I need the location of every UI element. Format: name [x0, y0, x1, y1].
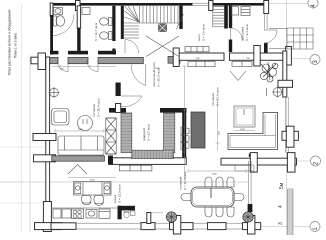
plant NE: [260, 62, 277, 82]
buffet bar: [191, 112, 205, 148]
bathroom floor wall: [50, 51, 58, 55]
plants bottom: [166, 212, 176, 222]
landing diagonal: [177, 14, 184, 29]
svg-text:S = 25,4 кв.м: S = 25,4 кв.м: [97, 99, 101, 117]
bottom cross x148: [141, 223, 155, 230]
column circle: [49, 87, 60, 98]
main wall right outline sections: [179, 53, 224, 60]
round table: [78, 116, 93, 131]
closet top walls: [109, 108, 126, 113]
east wall window: [265, 14, 268, 30]
kitchen north wall: [52, 156, 105, 161]
hall wall above closet: [116, 83, 121, 97]
log cross main x41: [38, 53, 46, 70]
log end top x210: [209, 1, 213, 11]
flight2 right wall: [224, 5, 228, 29]
svg-text:S = 22,4 кв.м: S = 22,4 кв.м: [183, 172, 187, 190]
side table circle: [267, 87, 284, 98]
svg-text:прихожая: прихожая: [241, 27, 245, 41]
right glazing: [286, 97, 289, 153]
log end top x77: [76, 1, 81, 11]
axis circles: [308, 0, 321, 232]
vestibule cabinet: [241, 7, 250, 16]
armchair: [52, 109, 70, 126]
svg-text:S = 57,3 кв.м: S = 57,3 кв.м: [216, 88, 220, 106]
bottom cross x251: [243, 223, 261, 230]
wc toilet 1: [100, 18, 112, 26]
log arm left junction: [31, 57, 38, 64]
bottom mid segment: [208, 223, 227, 230]
closet shelf strips: [121, 113, 175, 159]
kitchen stools: [82, 196, 104, 206]
shower room left wall: [50, 3, 53, 16]
kitchen wc walls: [118, 206, 136, 211]
top outer wall: [50, 3, 193, 6]
corner cross SW: [43, 202, 51, 232]
left run treads: [124, 26, 139, 38]
svg-text:S = 7,6 кв.м: S = 7,6 кв.м: [202, 24, 206, 41]
doors: [53, 15, 277, 107]
svg-text:1200: 1200: [240, 129, 246, 131]
east wall below door: [264, 43, 268, 53]
tiny dim labels: [60, 58, 250, 181]
svg-text:S = 6,4 кв.м: S = 6,4 кв.м: [245, 24, 249, 41]
main stair treads: [124, 6, 180, 23]
stair left wall: [121, 6, 124, 39]
hall bench: [185, 47, 209, 52]
svg-text:5м: 5м: [279, 182, 285, 189]
log cross main x288: [286, 47, 292, 66]
svg-text:План 1-го этажа: План 1-го этажа: [14, 33, 18, 58]
room labels: [92, 23, 249, 203]
log bar left y158: [34, 155, 56, 162]
sofa: [58, 136, 104, 155]
kitchen island: [74, 182, 112, 196]
dining table: [191, 187, 234, 207]
sink shower room: [54, 8, 63, 15]
kitchen upper cabinets: [119, 165, 152, 171]
log end NE corner: [264, 1, 269, 14]
right outer wall upper: [283, 51, 287, 97]
log cross main x257: [254, 46, 260, 67]
svg-text:3100: 3100: [90, 180, 96, 182]
dim line living: [55, 129, 104, 133]
svg-text:3: 3: [278, 222, 284, 225]
svg-text:столовая: столовая: [179, 177, 183, 190]
svg-text:4: 4: [278, 205, 284, 208]
square table living: [234, 106, 255, 127]
hall X mark: [146, 36, 179, 57]
log cross right y136: [282, 131, 298, 140]
svg-text:кухня: кухня: [113, 195, 117, 203]
svg-text:холл: холл: [197, 34, 201, 41]
toilet shower room: [54, 16, 65, 27]
svg-text:S = 11,7 кв.м: S = 11,7 кв.м: [94, 23, 98, 41]
corner sofa: [228, 113, 278, 150]
wardrobe: [106, 118, 116, 154]
partition shower/wc: [77, 6, 80, 28]
svg-text:S = 20,3 кв.м: S = 20,3 кв.м: [157, 69, 161, 87]
svg-text:2500: 2500: [78, 129, 84, 131]
wc cabinet: [82, 8, 90, 15]
kitchen counters: [52, 208, 117, 219]
closet right wall: [182, 108, 186, 164]
svg-text:S = 6,2 кв.м: S = 6,2 кв.м: [147, 124, 151, 141]
svg-text:гардероб: гардероб: [142, 128, 146, 141]
cabinet below wall 1: [188, 62, 215, 67]
bottom wall band: [51, 223, 76, 230]
log bar left y137: [33, 134, 56, 141]
top wall window: [192, 3, 211, 5]
log cross main x176: [173, 48, 179, 67]
living V mark: [230, 71, 246, 81]
scale ruler: [288, 189, 294, 235]
closet bottom wall: [110, 158, 186, 165]
svg-text:лестничный холл: лестничный холл: [152, 62, 156, 87]
dining east glazing: [249, 161, 251, 218]
bottom cross x177: [170, 223, 194, 230]
main wall left gray sections: [37, 57, 58, 63]
svg-text:1800: 1800: [186, 114, 188, 120]
left outer wall: [46, 57, 50, 221]
vestibule left wall: [229, 6, 232, 28]
svg-text:План расстановки мебели и обор: План расстановки мебели и оборудования: [7, 9, 11, 75]
svg-text:S = 13,3 кв.м: S = 13,3 кв.м: [118, 185, 122, 203]
dining chairs: [181, 177, 244, 217]
flight2 treads: [213, 7, 224, 28]
svg-text:гостиная: гостиная: [211, 93, 215, 106]
log cross x254 on south wall: [250, 153, 257, 173]
stools: [181, 127, 189, 150]
winder fan: [125, 6, 140, 22]
svg-text:3400: 3400: [212, 174, 218, 176]
landing dark square: [158, 24, 167, 33]
kitchen wc fixtures: [124, 210, 135, 218]
vestibule niche box: [232, 7, 239, 16]
step below south wall: [235, 165, 254, 171]
exterior stair: [269, 28, 313, 49]
kitchen gable mark: [68, 165, 87, 175]
wc toilet 2: [100, 32, 112, 40]
living south wall: [221, 158, 297, 165]
svg-text:гостиная: гостиная: [92, 104, 96, 117]
cabinet below wall 2: [232, 62, 252, 67]
dim lines interior: [52, 65, 255, 181]
stair right wall: [179, 6, 182, 29]
wc right wall: [112, 6, 115, 41]
corner cross SE: [287, 153, 295, 173]
